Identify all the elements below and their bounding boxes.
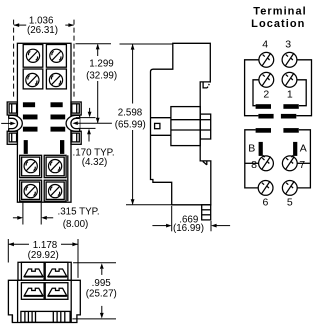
- clamp cell r1c1: [21, 262, 44, 280]
- arrowhead .170 up: [87, 129, 91, 135]
- svg-text:2: 2: [263, 89, 269, 101]
- ext line .669 right: [210, 221, 212, 231]
- svg-text:(32.99): (32.99): [86, 70, 117, 81]
- right mounting ear top: [71, 102, 81, 115]
- svg-text:1.299: 1.299: [89, 59, 114, 70]
- arrowhead left hook leader: [10, 122, 15, 126]
- top terminal block cell 1: [23, 45, 43, 68]
- middle terminal block: [171, 107, 200, 146]
- dim 2.598 line: [132, 45, 134, 104]
- clamp tent r2c2: [48, 288, 67, 296]
- screw B1: [24, 160, 37, 173]
- dim 1.178: [8, 239, 78, 278]
- top terminal block cell 3: [23, 69, 43, 89]
- bottom block right inner line: [67, 155, 69, 201]
- ext line 1.178 left: [7, 239, 9, 263]
- screw B2: [49, 160, 62, 173]
- coil slot left: [24, 140, 28, 154]
- terminal 7: [282, 156, 297, 171]
- bottom terminal block cell 3: [20, 180, 42, 201]
- dim .995: [72, 263, 116, 319]
- terminal 2: [259, 72, 274, 87]
- dim .669: [152, 206, 230, 231]
- svg-text:(26.31): (26.31): [27, 25, 58, 36]
- arrowhead .669 right: [211, 224, 217, 228]
- .315 arrow tails: [13, 217, 18, 219]
- lower DIN catch: [203, 161, 207, 165]
- .170 down arrow tail: [89, 108, 91, 112]
- screw A4: [49, 73, 62, 86]
- contact slot row2 right: [51, 115, 66, 120]
- clamp tent r1c1: [24, 269, 43, 277]
- col inner lines: [17, 280, 19, 322]
- bottom terminal block cell 1: [20, 155, 42, 177]
- coil bar A: [293, 142, 297, 156]
- screw A3: [26, 73, 39, 86]
- terminal 4: [259, 52, 274, 67]
- svg-text:3: 3: [285, 38, 291, 50]
- svg-text:A: A: [300, 142, 307, 154]
- clamp cell r2c2: [45, 283, 68, 300]
- left protrusion: [151, 118, 171, 136]
- arrowhead .315 left: [17, 216, 23, 220]
- wire terminal 3 to bar: [296, 60, 311, 116]
- wire terminal 2 to bar: [253, 80, 259, 106]
- comb: [21, 311, 70, 322]
- arrow 1.036 left: [14, 23, 20, 27]
- screw B3: [24, 185, 37, 198]
- right latch hook: [66, 115, 80, 131]
- front view body outline: [17, 43, 71, 202]
- top terminal block cell 2: [46, 45, 66, 68]
- .170 up arrow tail: [88, 134, 90, 142]
- top terminal block cell 4: [46, 69, 66, 89]
- svg-text:(16.99): (16.99): [173, 223, 204, 234]
- bottom extension line 2.598: [126, 204, 172, 206]
- screw A1: [26, 49, 39, 62]
- arrow 1.299 top: [96, 44, 100, 50]
- arrow 1.299 bottom: [96, 118, 100, 124]
- svg-text:(8.00): (8.00): [63, 219, 89, 230]
- ext line 1.178 right: [77, 239, 79, 278]
- arrowhead .995 down: [100, 313, 104, 319]
- ext line .315 right: [40, 203, 42, 225]
- ext line .315 left: [22, 203, 24, 225]
- terminal 6: [258, 181, 273, 196]
- arrow 1.036 right: [68, 23, 74, 27]
- screw A2: [50, 49, 63, 62]
- bottom terminal block cell 2: [44, 155, 66, 177]
- coil bar B: [259, 142, 263, 156]
- upper ext line .170: [76, 117, 96, 119]
- wire coil B to terminal 8: [263, 155, 265, 157]
- terminal 3: [282, 52, 297, 67]
- bottom view silhouette: [8, 280, 80, 322]
- svg-text:.315 TYP.: .315 TYP.: [58, 207, 100, 218]
- side view outline: [151, 43, 211, 205]
- leader arrow into left hook: [1, 122, 11, 124]
- right mounting ear bottom: [71, 131, 81, 144]
- wire tap terminal 7: [297, 162, 310, 164]
- svg-text:Location: Location: [251, 18, 305, 30]
- extension line dashed left: [13, 20, 15, 97]
- clamp cell r1c2: [45, 262, 68, 280]
- clamp cell r2c1: [21, 283, 44, 300]
- arrowhead 1.178 right: [72, 242, 78, 246]
- contact bar row1 right: [283, 104, 298, 109]
- dim 1.036 line left: [14, 24, 26, 26]
- contact slot row3 left: [23, 127, 38, 132]
- wire terminal 4 to bar: [245, 60, 260, 116]
- arrowhead .995 up: [100, 263, 104, 269]
- contact bar row2 left: [258, 114, 273, 119]
- contact bar row2 right: [281, 114, 296, 119]
- left latch hook: [9, 115, 23, 131]
- contact bar row3 left: [256, 128, 271, 133]
- svg-text:B: B: [248, 142, 255, 154]
- contact bar row1 left: [256, 104, 271, 109]
- left mounting ear top: [7, 102, 17, 115]
- .669 arrow tails: [152, 225, 166, 227]
- terminal 1: [282, 72, 297, 87]
- contact slot row1 left: [23, 102, 35, 107]
- 1.178 line right: [61, 243, 78, 245]
- svg-text:6: 6: [262, 196, 268, 208]
- wire tap terminal 8: [245, 162, 259, 164]
- clamp tent r1c2: [48, 269, 67, 277]
- ext line .995 top: [73, 262, 116, 264]
- svg-text:8: 8: [251, 159, 257, 171]
- lower ext line .170: [78, 127, 96, 129]
- wire coil A to terminal 7: [291, 155, 293, 157]
- extension line dashed right: [73, 20, 75, 97]
- svg-text:4: 4: [262, 38, 268, 50]
- screw B4: [49, 185, 62, 198]
- arrowhead right hook leader: [72, 121, 77, 125]
- contact bar row3 right: [283, 128, 298, 133]
- .995 arrow tails: [101, 269, 103, 275]
- contact slot row3 right: [51, 127, 66, 132]
- terminal 8: [259, 156, 274, 171]
- svg-text:1: 1: [287, 89, 293, 101]
- svg-text:(25.27): (25.27): [86, 289, 117, 300]
- clamp tent r2c1: [24, 288, 43, 296]
- middle block right stack: [200, 114, 211, 139]
- coil slot right: [60, 140, 64, 154]
- arrowhead 1.178 left: [8, 242, 14, 246]
- svg-text:Terminal: Terminal: [253, 5, 306, 17]
- terminal 5: [282, 181, 297, 196]
- contact slot row2 left: [23, 115, 38, 120]
- arrowhead .170 down: [88, 112, 92, 118]
- 1.178 line left: [9, 243, 29, 245]
- dim 1.299 line: [97, 45, 99, 57]
- dim 1.036 line right: [65, 24, 73, 26]
- top extension line (front): [76, 43, 112, 45]
- ext line .995 bottom: [72, 318, 116, 320]
- arrowhead .669 left: [166, 224, 172, 228]
- wire terminal 1 to bar: [297, 80, 307, 106]
- arrowhead .315 right: [41, 216, 47, 220]
- ext line .669 left: [171, 206, 173, 231]
- svg-text:(29.92): (29.92): [28, 250, 59, 261]
- square hole: [155, 123, 160, 128]
- bottom terminal block cell 4: [44, 180, 66, 201]
- contact slot row1 right: [51, 102, 63, 107]
- svg-text:5: 5: [287, 196, 293, 208]
- svg-text:(65.99): (65.99): [115, 120, 146, 131]
- mid ext line (1.299 target): [78, 122, 112, 124]
- svg-text:2.598: 2.598: [118, 107, 143, 118]
- bottom terminal stack: [202, 205, 211, 220]
- upper DIN catch pocket: [203, 83, 207, 88]
- top extension line (side): [120, 43, 173, 45]
- wire lower left group: [245, 130, 258, 188]
- wire lower right group: [297, 130, 310, 188]
- bottom view top rect: [18, 262, 71, 280]
- left mounting ear bottom: [7, 131, 17, 144]
- svg-text:.995: .995: [92, 278, 112, 289]
- arrow 2.598 top: [131, 44, 135, 50]
- svg-text:7: 7: [299, 159, 305, 171]
- arrow 2.598 bottom: [131, 199, 135, 205]
- svg-text:(4.32): (4.32): [82, 157, 108, 168]
